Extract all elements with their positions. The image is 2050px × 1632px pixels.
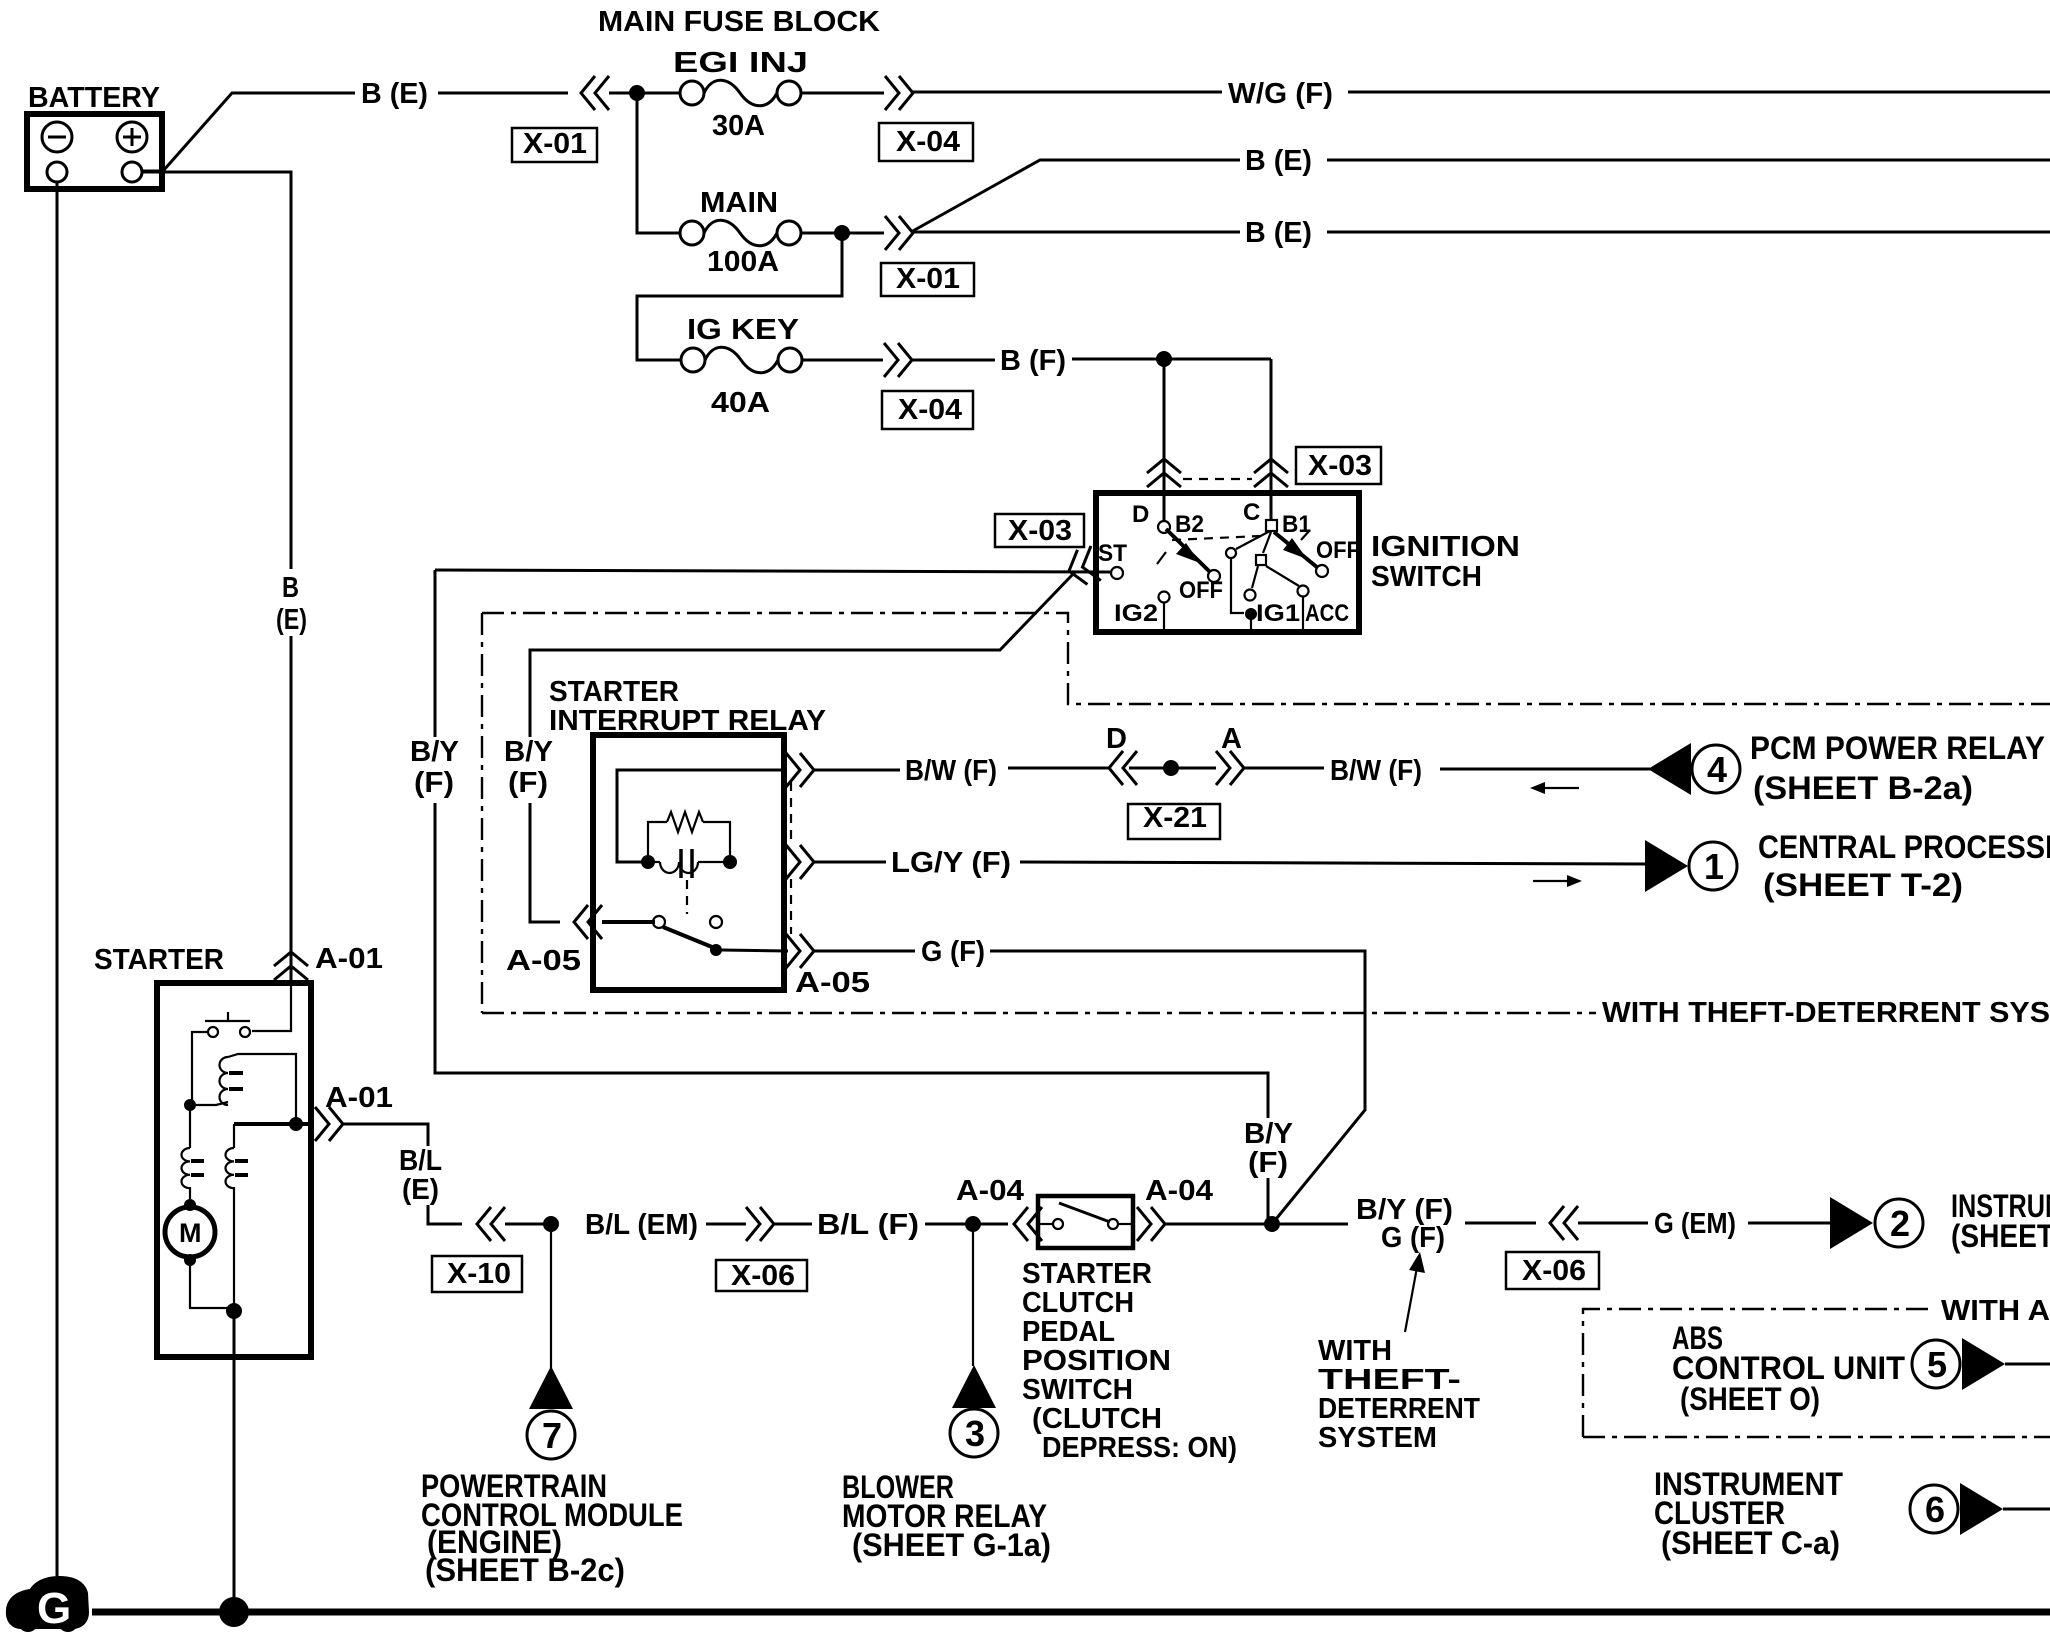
svg-text:G (F): G (F): [1381, 1222, 1445, 1254]
arrow right small: [1533, 875, 1582, 887]
svg-text:B/L: B/L: [399, 1145, 442, 1177]
starter solenoid switch: [192, 983, 291, 1100]
node solenoid junction: [184, 1099, 196, 1111]
svg-text:(E): (E): [276, 604, 307, 636]
svg-text:X-04: X-04: [896, 126, 960, 158]
starter output wire A-01: [234, 1122, 311, 1126]
relay coil dashed actuator link: [686, 880, 688, 914]
svg-text:B (E): B (E): [1245, 217, 1312, 249]
wire B/Y down-right to clutch node: [435, 803, 1268, 1118]
node B/L junction: [543, 1216, 559, 1232]
svg-text:MAIN FUSE BLOCK: MAIN FUSE BLOCK: [598, 6, 880, 38]
svg-text:(SHEET B-2c): (SHEET B-2c): [425, 1552, 625, 1588]
ignition blade B1 to OFF: [1274, 530, 1360, 577]
connector X-01 chevron: [885, 216, 913, 250]
wire: [1578, 1222, 1648, 1225]
svg-text:B/L (F): B/L (F): [817, 1209, 919, 1241]
svg-text:CENTRAL PROCESSIN: CENTRAL PROCESSIN: [1758, 829, 2050, 865]
svg-text:PCM POWER RELAY: PCM POWER RELAY: [1750, 730, 2045, 766]
svg-text:STARTER: STARTER: [1022, 1258, 1152, 1290]
connector X-04 box: [882, 391, 973, 429]
svg-text:A-01: A-01: [315, 943, 383, 975]
svg-text:(SHEET O): (SHEET O): [1680, 1381, 1820, 1417]
connector X-01 box: [881, 263, 974, 296]
svg-text:7: 7: [542, 1415, 562, 1456]
starter solenoid coil: [196, 1054, 296, 1120]
svg-text:OFF: OFF: [1316, 537, 1360, 564]
motor M: [165, 1207, 215, 1257]
node junction after MAIN fuse: [834, 225, 850, 241]
svg-text:WITH THEFT-DETERRENT SYS: WITH THEFT-DETERRENT SYS: [1602, 997, 2050, 1029]
node X-21 junction: [1163, 760, 1179, 776]
theft-deterrent boundary dash-dot left: [481, 613, 483, 1013]
wire battery positive to B(E): [142, 93, 355, 171]
svg-text:EGI INJ: EGI INJ: [673, 47, 808, 79]
wire: [1129, 767, 1216, 770]
terminal B2: [1158, 521, 1170, 533]
svg-text:SYSTEM: SYSTEM: [1318, 1422, 1437, 1454]
wire W/G (F): [913, 91, 1222, 94]
svg-text:B2: B2: [1175, 511, 1204, 538]
wire B/W to PCM power relay: [1440, 768, 1650, 771]
svg-text:B/Y: B/Y: [504, 736, 553, 768]
wire: [609, 92, 681, 95]
svg-text:IG2: IG2: [1114, 600, 1158, 627]
connector X-10 chevron: [477, 1207, 505, 1241]
wire MAIN fuse output: [801, 232, 884, 235]
svg-text:B: B: [282, 572, 299, 604]
destination arrow 7 POWERTRAIN CONTROL MODULE: [527, 1366, 575, 1459]
ignition dashed rotor path: [1172, 536, 1260, 540]
svg-text:X-06: X-06: [1522, 1255, 1586, 1287]
svg-text:2: 2: [1890, 1203, 1910, 1244]
svg-text:(SHEET B-2a): (SHEET B-2a): [1753, 770, 1973, 806]
node relay coil right: [723, 855, 737, 869]
connector X-03 chevron on ST wire: [1064, 546, 1101, 588]
svg-text:(CLUTCH: (CLUTCH: [1032, 1403, 1162, 1435]
connector X-10 box: [432, 1256, 522, 1292]
wire clutch switch output: [1165, 1223, 1268, 1226]
svg-text:X-10: X-10: [447, 1258, 511, 1290]
wire LG/Y to CPU: [1020, 862, 1648, 864]
theft-deterrent boundary dash-dot top: [482, 613, 2050, 704]
node B/Y G junction: [1264, 1216, 1280, 1232]
wire B(E) row2 to right edge: [1327, 231, 2050, 234]
ignition blade B2 to OFF: [1166, 529, 1223, 604]
starter interrupt relay K1 box: [593, 735, 784, 990]
svg-text:WITH A: WITH A: [1941, 1295, 2050, 1327]
svg-text:G (EM): G (EM): [1654, 1208, 1736, 1240]
connector X-03 chevrons above ignition switch: [1147, 459, 1181, 487]
battery BT1: [27, 114, 162, 189]
svg-text:(F): (F): [508, 767, 548, 799]
connector X-06 box: [1506, 1252, 1599, 1289]
starter field coil left: [181, 1148, 204, 1188]
relay switch: [653, 916, 722, 956]
wire: [505, 1223, 546, 1226]
svg-text:A-01: A-01: [325, 1082, 393, 1114]
svg-text:THEFT-: THEFT-: [1318, 1364, 1461, 1396]
svg-text:B/W (F): B/W (F): [905, 755, 997, 787]
wire B/L to X-10: [428, 1205, 462, 1224]
wire to clutch switch: [925, 1223, 1008, 1226]
svg-text:W/G (F): W/G (F): [1228, 78, 1333, 110]
label WITH THEFT-DETERRENT SYSTEM with arrow: [1318, 1252, 1480, 1454]
terminal IG2: [1159, 592, 1170, 603]
wire G(F) down to clutch node: [990, 951, 1365, 1224]
svg-text:IGNITION: IGNITION: [1371, 531, 1520, 563]
svg-text:(F): (F): [1248, 1147, 1288, 1179]
svg-text:STARTER: STARTER: [549, 676, 679, 708]
wire B(F) to ignition C/B1: [1270, 359, 1273, 520]
resistor R in relay: [648, 812, 730, 862]
wire field coil to junction: [233, 1187, 235, 1308]
wire B(E) row2: [913, 231, 1240, 234]
wire battery to starter A-01 lower: [290, 636, 293, 983]
svg-text:G: G: [37, 1584, 71, 1632]
wire field coil left lead: [189, 1105, 191, 1148]
connector A-04 chevron right: [1137, 1207, 1165, 1241]
svg-text:X-06: X-06: [731, 1260, 795, 1292]
wire to instrument arrow: [1748, 1222, 1830, 1225]
wire B(F) to ignition switch: [1072, 358, 1271, 361]
svg-text:100A: 100A: [707, 246, 779, 278]
relay inner wire to contact feed: [617, 770, 784, 862]
wire IG KEY output: [802, 359, 883, 362]
wire B/W (F) second: [1244, 767, 1324, 770]
svg-text:X-04: X-04: [898, 394, 962, 426]
svg-text:40A: 40A: [711, 387, 770, 419]
wire B(F) to ignition D/B2: [1163, 359, 1166, 521]
connector X-04 chevron: [885, 76, 913, 110]
node ground junction: [219, 1597, 249, 1627]
connector X-01 chevron: [581, 76, 609, 110]
destination arrow 3 BLOWER MOTOR RELAY: [950, 1365, 998, 1457]
wire B (F): [912, 359, 995, 362]
svg-text:DETERRENT: DETERRENT: [1318, 1393, 1480, 1425]
wire into relay switch: [602, 920, 655, 924]
wire B/Y G output: [1272, 1223, 1348, 1226]
wire battery to starter A-01 upper: [142, 172, 291, 569]
connector A-01 chevron starter output: [315, 1107, 343, 1141]
ignition detent tick: [1157, 552, 1166, 564]
svg-text:ACC: ACC: [1305, 600, 1349, 627]
svg-text:X-21: X-21: [1143, 802, 1207, 834]
svg-text:DEPRESS: ON): DEPRESS: ON): [1042, 1432, 1237, 1464]
ABS boundary dash-dot box: [1583, 1309, 1935, 1437]
connector X-03 dashed gap line: [1183, 478, 1252, 480]
node junction at fuse block: [629, 85, 645, 101]
connector X-06 chevron: [746, 1207, 774, 1241]
starter field coil right: [226, 1148, 249, 1188]
svg-text:(E): (E): [402, 1174, 439, 1206]
wire B/Y to relay: [530, 803, 560, 922]
wire B(E) row1 to right edge: [1327, 159, 2050, 162]
svg-text:B/Y: B/Y: [1244, 1118, 1293, 1150]
wire B/Y into junction: [1267, 1178, 1270, 1224]
connector X-21 chevron left: [1109, 751, 1137, 785]
svg-text:A-04: A-04: [1145, 1175, 1213, 1207]
svg-text:B (F): B (F): [1000, 345, 1066, 377]
connector X-01 box: [512, 128, 597, 162]
svg-text:(SHEET: (SHEET: [1951, 1218, 2050, 1254]
svg-text:LG/Y (F): LG/Y (F): [891, 847, 1011, 879]
node relay coil left: [641, 855, 655, 869]
wire relay switch output: [722, 950, 788, 951]
node starter output junction: [289, 1117, 303, 1131]
node motor top: [184, 1199, 196, 1211]
destination arrow 4 PCM POWER RELAY: [1648, 743, 1740, 795]
svg-text:C: C: [1243, 499, 1260, 526]
fuse MAIN 100A: [680, 220, 801, 246]
svg-text:6: 6: [1925, 1489, 1945, 1530]
wire LG/Y (F): [814, 861, 886, 864]
svg-text:B/W (F): B/W (F): [1330, 755, 1422, 787]
wire ST feed: [435, 570, 1110, 572]
fuse IG KEY 40A: [681, 347, 802, 373]
clutch pedal position switch SW2 box: [1038, 1196, 1133, 1248]
wire branch diagonal to B(E) row1: [911, 160, 1240, 232]
svg-text:STARTER: STARTER: [94, 944, 224, 976]
svg-text:A-05: A-05: [506, 945, 581, 977]
wire to powertrain control module: [550, 1224, 552, 1368]
wire junction to MAIN fuse: [637, 93, 681, 233]
destination arrow 1 CENTRAL PROCESSING: [1645, 840, 1737, 892]
svg-text:D: D: [1106, 723, 1127, 755]
svg-text:POSITION: POSITION: [1022, 1345, 1171, 1377]
connector A-05 chevrons relay outputs: [786, 753, 814, 787]
wire B(E) to fuse block: [438, 92, 568, 95]
destination arrow 2 INSTRUMENT: [1830, 1197, 1923, 1249]
svg-text:B (E): B (E): [361, 78, 428, 110]
svg-text:A: A: [1221, 723, 1242, 755]
ignition selector contacts from B1: [1226, 531, 1309, 629]
destination arrow 5 ABS CONTROL UNIT: [1912, 1338, 2050, 1390]
wire G (F): [814, 950, 915, 953]
svg-text:5: 5: [1927, 1344, 1947, 1385]
connector X-06 box: [716, 1260, 807, 1292]
svg-text:X-01: X-01: [523, 128, 587, 160]
svg-text:30A: 30A: [712, 110, 765, 142]
svg-text:(SHEET C-a): (SHEET C-a): [1661, 1525, 1840, 1561]
svg-text:BATTERY: BATTERY: [28, 82, 160, 114]
wire: [774, 1223, 812, 1226]
wire ST direct branch B/Y vertical: [434, 570, 437, 737]
wire B/W to X-21: [1008, 767, 1109, 770]
connector X-03 box right: [1296, 447, 1381, 484]
svg-text:PEDAL: PEDAL: [1022, 1316, 1115, 1348]
wire coil right lead: [233, 1124, 235, 1148]
starter M1 box: [157, 983, 311, 1357]
ground G symbol: [6, 1576, 89, 1632]
svg-text:(SHEET T-2): (SHEET T-2): [1763, 867, 1963, 903]
connector X-04 box: [879, 123, 973, 161]
connector X-06 chevron right: [1550, 1206, 1578, 1240]
arrow left small: [1530, 782, 1579, 794]
connector X-04 chevron: [884, 343, 912, 377]
connector X-21 chevron right: [1216, 751, 1244, 785]
wire battery negative to ground: [56, 182, 59, 1581]
wire MAIN junction to IG KEY fuse: [637, 233, 842, 360]
svg-text:B/L (EM): B/L (EM): [585, 1209, 698, 1241]
svg-text:MAIN: MAIN: [700, 187, 778, 219]
wire B/W (F): [814, 769, 900, 772]
svg-text:(SHEET G-1a): (SHEET G-1a): [852, 1527, 1051, 1563]
svg-text:X-01: X-01: [896, 263, 960, 295]
svg-text:3: 3: [965, 1413, 985, 1454]
node starter ground junction: [226, 1303, 242, 1319]
node junction B(F): [1156, 351, 1172, 367]
ground bus wire: [92, 1609, 2050, 1616]
connector X-03 box left: [995, 514, 1084, 547]
wire to motor: [189, 1187, 191, 1203]
wire ST to B/Y theft branch: [530, 572, 1075, 737]
connector A-05 dashed boundary: [790, 782, 792, 934]
svg-text:ST: ST: [1098, 540, 1127, 567]
svg-text:G (F): G (F): [921, 936, 985, 968]
node blower branch junction: [965, 1216, 981, 1232]
svg-text:OFF: OFF: [1179, 577, 1223, 604]
svg-text:D: D: [1132, 501, 1149, 528]
svg-text:IG1: IG1: [1256, 600, 1300, 627]
theft-deterrent boundary dash-dot bottom: [482, 1012, 1596, 1014]
svg-text:B/Y: B/Y: [410, 736, 459, 768]
svg-text:SWITCH: SWITCH: [1371, 561, 1482, 593]
svg-text:SWITCH: SWITCH: [1022, 1374, 1133, 1406]
svg-text:B (E): B (E): [1245, 145, 1312, 177]
clutch switch contacts: [1038, 1203, 1133, 1229]
svg-text:X-03: X-03: [1308, 450, 1372, 482]
wire W/G to right edge: [1348, 91, 2050, 94]
svg-text:IG KEY: IG KEY: [687, 314, 799, 346]
ignition switch SW1 box: [1096, 493, 1359, 632]
connector A-05 chevron: [574, 905, 602, 939]
svg-text:WITH: WITH: [1318, 1335, 1392, 1367]
relay coil L: [648, 849, 730, 878]
svg-text:X-03: X-03: [1008, 515, 1072, 547]
svg-text:CLUTCH: CLUTCH: [1022, 1287, 1134, 1319]
wire starter to ground: [233, 1311, 236, 1612]
wire motor to junction: [190, 1260, 228, 1308]
wire to X-06: [706, 1223, 746, 1226]
connector A-01 chevron: [274, 952, 308, 980]
fuse EGI INJ 30A: [680, 80, 801, 106]
svg-text:(F): (F): [414, 767, 454, 799]
wire to blower motor relay: [972, 1224, 974, 1366]
destination arrow 6 INSTRUMENT CLUSTER: [1910, 1483, 2050, 1535]
svg-text:A-04: A-04: [956, 1175, 1024, 1207]
svg-text:1: 1: [1704, 846, 1724, 887]
node motor bottom: [184, 1254, 196, 1266]
svg-text:A-05: A-05: [795, 967, 870, 999]
svg-text:M: M: [179, 1218, 202, 1248]
connector X-21 box: [1128, 802, 1220, 839]
connector A-04 chevron left: [1014, 1207, 1042, 1241]
wire to X-06 right: [1465, 1222, 1536, 1225]
wire fuse to X-04: [801, 92, 884, 95]
svg-text:4: 4: [1707, 749, 1727, 790]
wire B/L (E): [343, 1124, 428, 1146]
terminal B1: [1266, 520, 1277, 531]
